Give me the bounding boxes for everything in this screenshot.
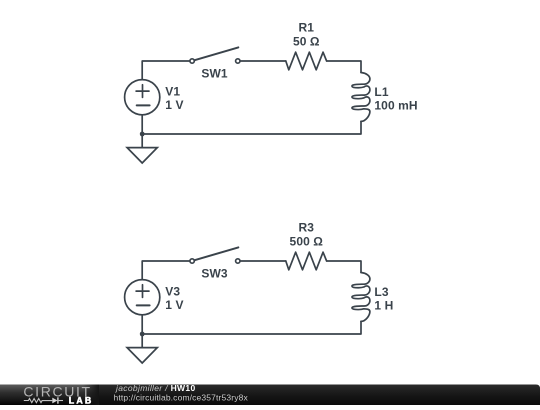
svg-text:100 mH: 100 mH [374, 99, 417, 113]
wire R1 to L1 top [327, 61, 361, 73]
switch SW1 [190, 47, 240, 63]
wire SW3 right terminal to R3 [240, 260, 285, 262]
footer bar [0, 385, 540, 406]
svg-text:V1: V1 [165, 85, 180, 99]
wire V1- to ground node [141, 115, 143, 134]
svg-text:500 Ω: 500 Ω [290, 235, 324, 249]
svg-text:jacobjmiller / HW10: jacobjmiller / HW10 [115, 383, 196, 393]
inductor L1 [352, 73, 370, 122]
svg-text:R1: R1 [299, 21, 315, 35]
resistor R3 [286, 252, 327, 270]
resistor R1 [286, 52, 327, 70]
svg-text:V3: V3 [165, 285, 180, 299]
switch SW3 [190, 247, 240, 263]
wire SW1 right terminal to R1 [240, 60, 285, 62]
svg-text:1 H: 1 H [374, 299, 393, 313]
wire L3 bottom to ground node [142, 321, 361, 334]
node junction at V1- / ground [140, 132, 145, 137]
ground [127, 334, 157, 363]
svg-text:R3: R3 [299, 221, 315, 235]
wire V1+ to SW1 left terminal [142, 61, 189, 80]
voltage source V3 [125, 280, 160, 315]
CircuitLab logo diode [52, 398, 57, 404]
svg-text:SW1: SW1 [201, 67, 228, 81]
voltage source V1 [125, 80, 160, 115]
wire V3- to ground node [141, 315, 143, 334]
svg-text:LAB: LAB [69, 396, 94, 405]
CircuitLab logo resistor zigzag [24, 399, 52, 403]
CircuitLab logo wire to LAB [59, 400, 63, 402]
svg-text:50 Ω: 50 Ω [293, 35, 320, 49]
inductor L3 [352, 273, 370, 322]
wire L1 bottom to ground node [142, 121, 361, 134]
svg-text:1 V: 1 V [165, 298, 183, 312]
CircuitLab logo diode cathode bar [57, 397, 59, 403]
ground [127, 134, 157, 163]
svg-text:L3: L3 [374, 285, 388, 299]
svg-text:SW3: SW3 [201, 267, 228, 281]
svg-text:1 V: 1 V [165, 98, 183, 112]
node junction at V3- / ground [140, 332, 145, 337]
wire R3 to L3 top [327, 261, 361, 273]
svg-text:http://circuitlab.com/ce357tr5: http://circuitlab.com/ce357tr53ry8x [114, 392, 249, 402]
wire V3+ to SW3 left terminal [142, 261, 189, 280]
svg-text:L1: L1 [374, 85, 388, 99]
